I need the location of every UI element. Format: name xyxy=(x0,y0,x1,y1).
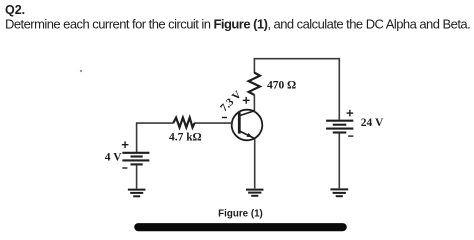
wire: base lead left of 4.7k xyxy=(137,122,174,124)
svg-text:4.7 kΩ: 4.7 kΩ xyxy=(169,131,202,143)
wire: top horizontal rail xyxy=(254,58,340,60)
battery V1 4V xyxy=(122,153,149,165)
wire: left vertical to 4V battery xyxy=(136,122,138,152)
wire: 24V battery to ground xyxy=(338,133,340,188)
polarity plus of 4V xyxy=(122,141,129,148)
wire: collector rail top vertical xyxy=(253,59,255,73)
polarity plus of 24V xyxy=(347,110,354,117)
ground (center, under emitter) xyxy=(246,190,264,196)
polarity minus of 7.3V xyxy=(222,117,227,119)
polarity minus of 24V xyxy=(348,135,353,137)
resistor R 4.7k (horizontal zigzag) xyxy=(173,118,194,128)
svg-text:24 V: 24 V xyxy=(361,117,384,129)
svg-text:470 Ω: 470 Ω xyxy=(267,80,296,92)
wire: collector lead from resistor to transistor xyxy=(253,95,255,112)
svg-text:4 V: 4 V xyxy=(105,152,122,164)
polarity plus of 7.3V xyxy=(243,97,250,104)
polarity minus of 4V xyxy=(122,167,127,169)
value label 4.7 kohm xyxy=(169,131,202,143)
wire: base lead right of 4.7k xyxy=(194,122,232,124)
resistor R 470ohm (vertical zigzag) xyxy=(249,73,260,95)
value label 4 V xyxy=(105,152,122,164)
value label 24 V xyxy=(361,117,384,129)
wire: emitter to ground xyxy=(254,139,256,189)
caption Figure (1) xyxy=(218,209,263,220)
ground (right, under 24V battery) xyxy=(330,189,348,196)
transistor Q1 (NPN BJT) xyxy=(232,110,263,141)
svg-text:Figure (1): Figure (1) xyxy=(218,209,263,220)
battery V2 24V xyxy=(326,121,353,133)
ground (left, under 4V battery) xyxy=(128,190,146,197)
value label 470 ohm xyxy=(267,80,296,92)
title Q2. xyxy=(5,3,25,17)
label 7.3 V (rotated annotation) xyxy=(218,89,244,115)
wire: 4V battery to ground xyxy=(136,165,138,188)
stray speck artifact xyxy=(80,70,82,72)
redaction bar xyxy=(134,223,347,231)
svg-text:Q2.: Q2. xyxy=(5,3,25,17)
svg-text:Determine each current for the: Determine each current for the circuit i… xyxy=(5,17,470,32)
wire: right vertical to 24V battery xyxy=(338,58,340,120)
problem statement text xyxy=(5,17,470,32)
